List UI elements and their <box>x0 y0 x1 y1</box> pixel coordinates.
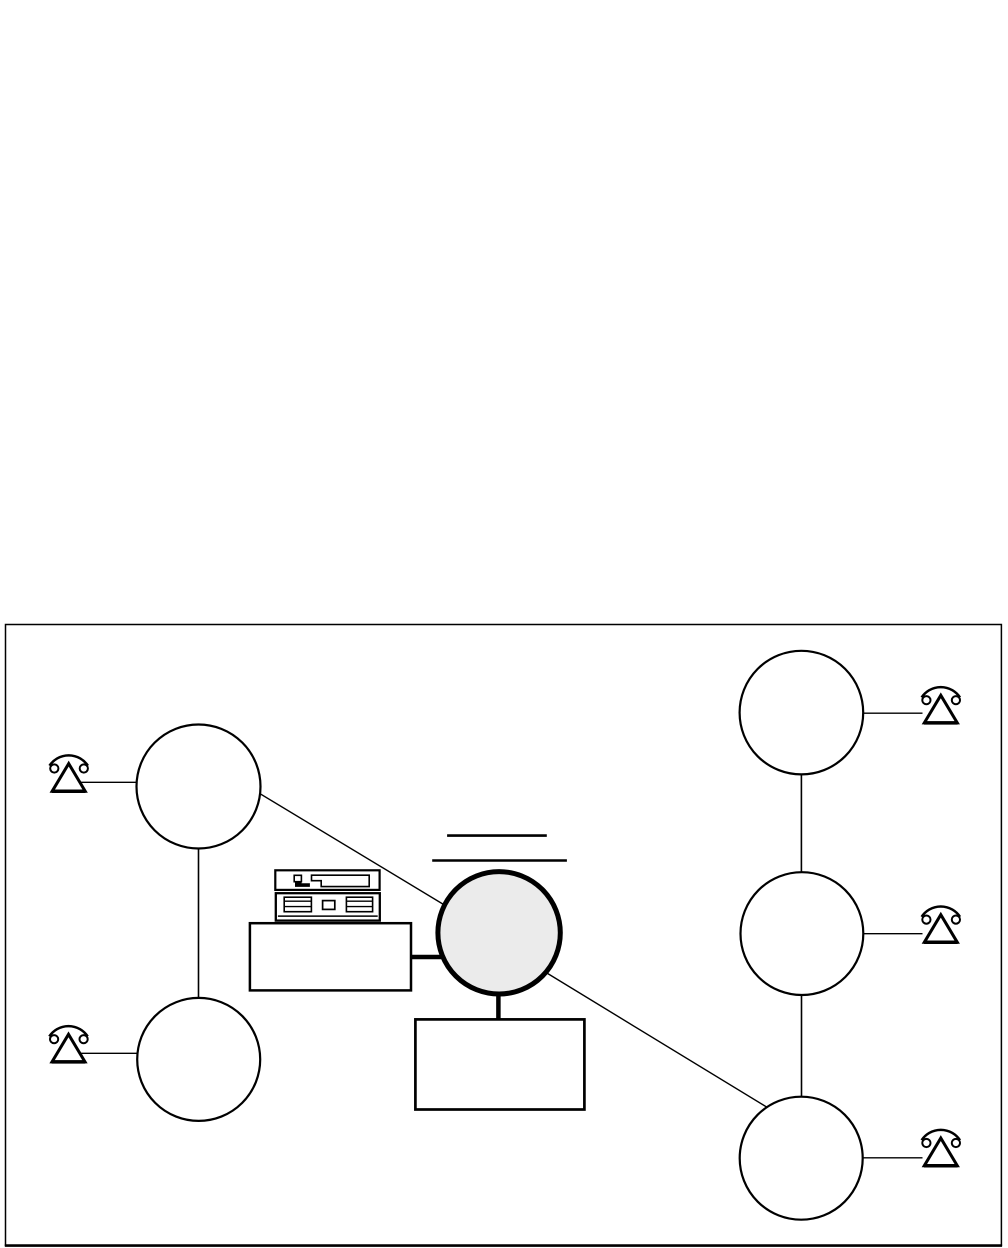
rectangle B <box>415 1019 584 1109</box>
node R3 <box>740 1097 863 1220</box>
computer unit: black L-shape <box>295 882 310 887</box>
rectangle A <box>250 923 411 990</box>
computer unit: small key square <box>294 875 301 881</box>
wire: telephone T1 to node L1 <box>80 781 199 783</box>
node R2 <box>741 872 864 995</box>
telephone T1 <box>49 755 87 791</box>
wire: node R2 to telephone T4 <box>801 933 923 935</box>
wire: node R3 to telephone T5 <box>801 1157 923 1159</box>
computer unit: left vent <box>284 897 311 912</box>
computer unit: base strip line <box>278 915 378 917</box>
diagram frame <box>6 625 1002 1246</box>
telephone T5 <box>922 1130 960 1166</box>
node L2 <box>137 998 260 1121</box>
wire: node C to node R3 (diagonal) <box>537 967 778 1114</box>
telephone T3 <box>922 687 960 723</box>
wire: node L1 to node L2 <box>198 786 200 1059</box>
wire: node R1 to node R2 <box>800 713 802 933</box>
telephone T4 <box>922 906 960 942</box>
computer unit: centre square button <box>323 901 335 910</box>
wire: rectangle A to node C (thick) <box>410 955 445 960</box>
wire: node R2 to node R3 <box>801 933 803 1158</box>
telephone T2 <box>49 1026 87 1062</box>
wire: node R1 to telephone T3 <box>801 712 923 714</box>
wire: telephone T2 to node L2 <box>80 1052 199 1054</box>
label line (long) above node C <box>432 859 567 861</box>
wire: node L1 to node C (diagonal) <box>244 784 461 915</box>
wire: node C to rectangle B (thick) <box>496 990 501 1020</box>
computer unit: upper chassis <box>275 870 379 890</box>
computer unit: right vent <box>346 897 372 912</box>
node C (shaded hub circle) <box>438 872 560 994</box>
computer unit: stepped drive outline <box>312 875 370 886</box>
node L1 <box>137 725 261 849</box>
computer unit: lower chassis <box>276 893 380 920</box>
label line (short) above node C <box>447 834 547 837</box>
node R1 <box>740 651 864 775</box>
